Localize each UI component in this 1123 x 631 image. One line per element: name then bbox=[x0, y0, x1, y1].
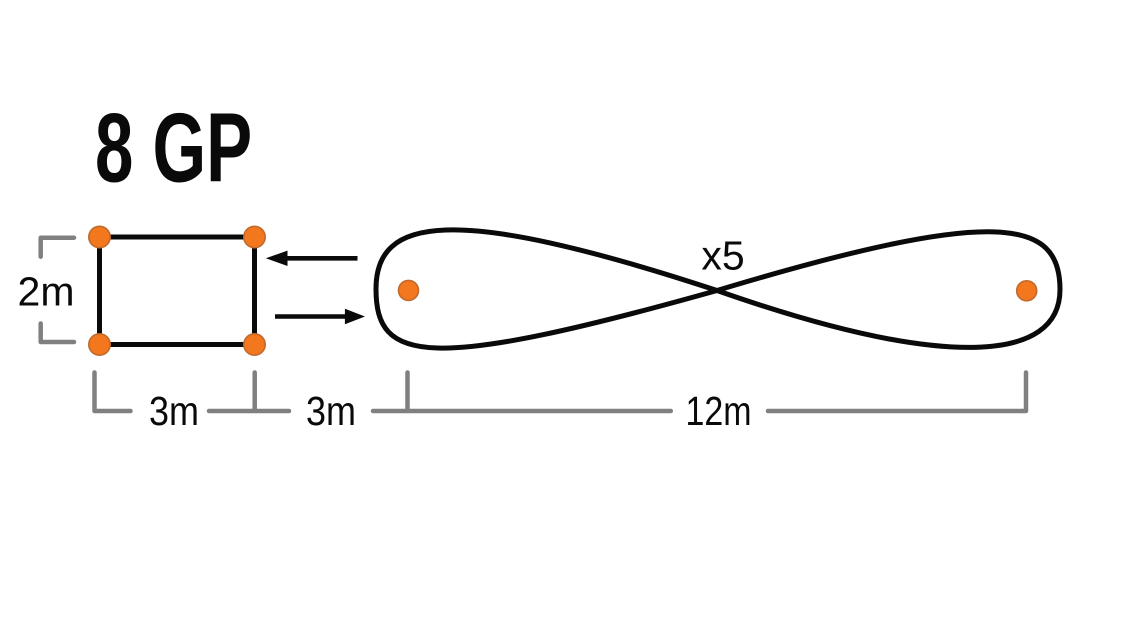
right loop dot bbox=[1017, 281, 1037, 301]
dimension segment with tick at figure-eight start bbox=[373, 373, 671, 412]
dimension tick left end (L shape) bbox=[95, 373, 131, 412]
dimension segment right with end tick bbox=[768, 373, 1026, 412]
2m bracket top bbox=[41, 238, 74, 257]
figure-eight track bbox=[376, 230, 1060, 348]
arrow left (top) bbox=[266, 251, 358, 266]
gate rectangle bbox=[100, 237, 255, 345]
svg-text:x5: x5 bbox=[701, 233, 744, 279]
svg-text:12m: 12m bbox=[686, 388, 752, 434]
title "8 GP" bbox=[95, 93, 252, 203]
left loop dot bbox=[399, 280, 419, 300]
svg-text:3m: 3m bbox=[149, 388, 199, 434]
arrow right (bottom) bbox=[275, 309, 365, 324]
gate corner dot top-right bbox=[244, 226, 265, 247]
dimension segment with middle tick bbox=[209, 373, 289, 412]
gate corner dot bottom-right bbox=[244, 334, 265, 355]
svg-text:3m: 3m bbox=[306, 388, 356, 434]
gate corner dot top-left bbox=[89, 226, 110, 247]
gate corner dot bottom-left bbox=[89, 334, 110, 355]
svg-text:2m: 2m bbox=[18, 269, 75, 315]
2m bracket bottom bbox=[41, 324, 74, 343]
svg-text:8 GP: 8 GP bbox=[95, 93, 252, 203]
